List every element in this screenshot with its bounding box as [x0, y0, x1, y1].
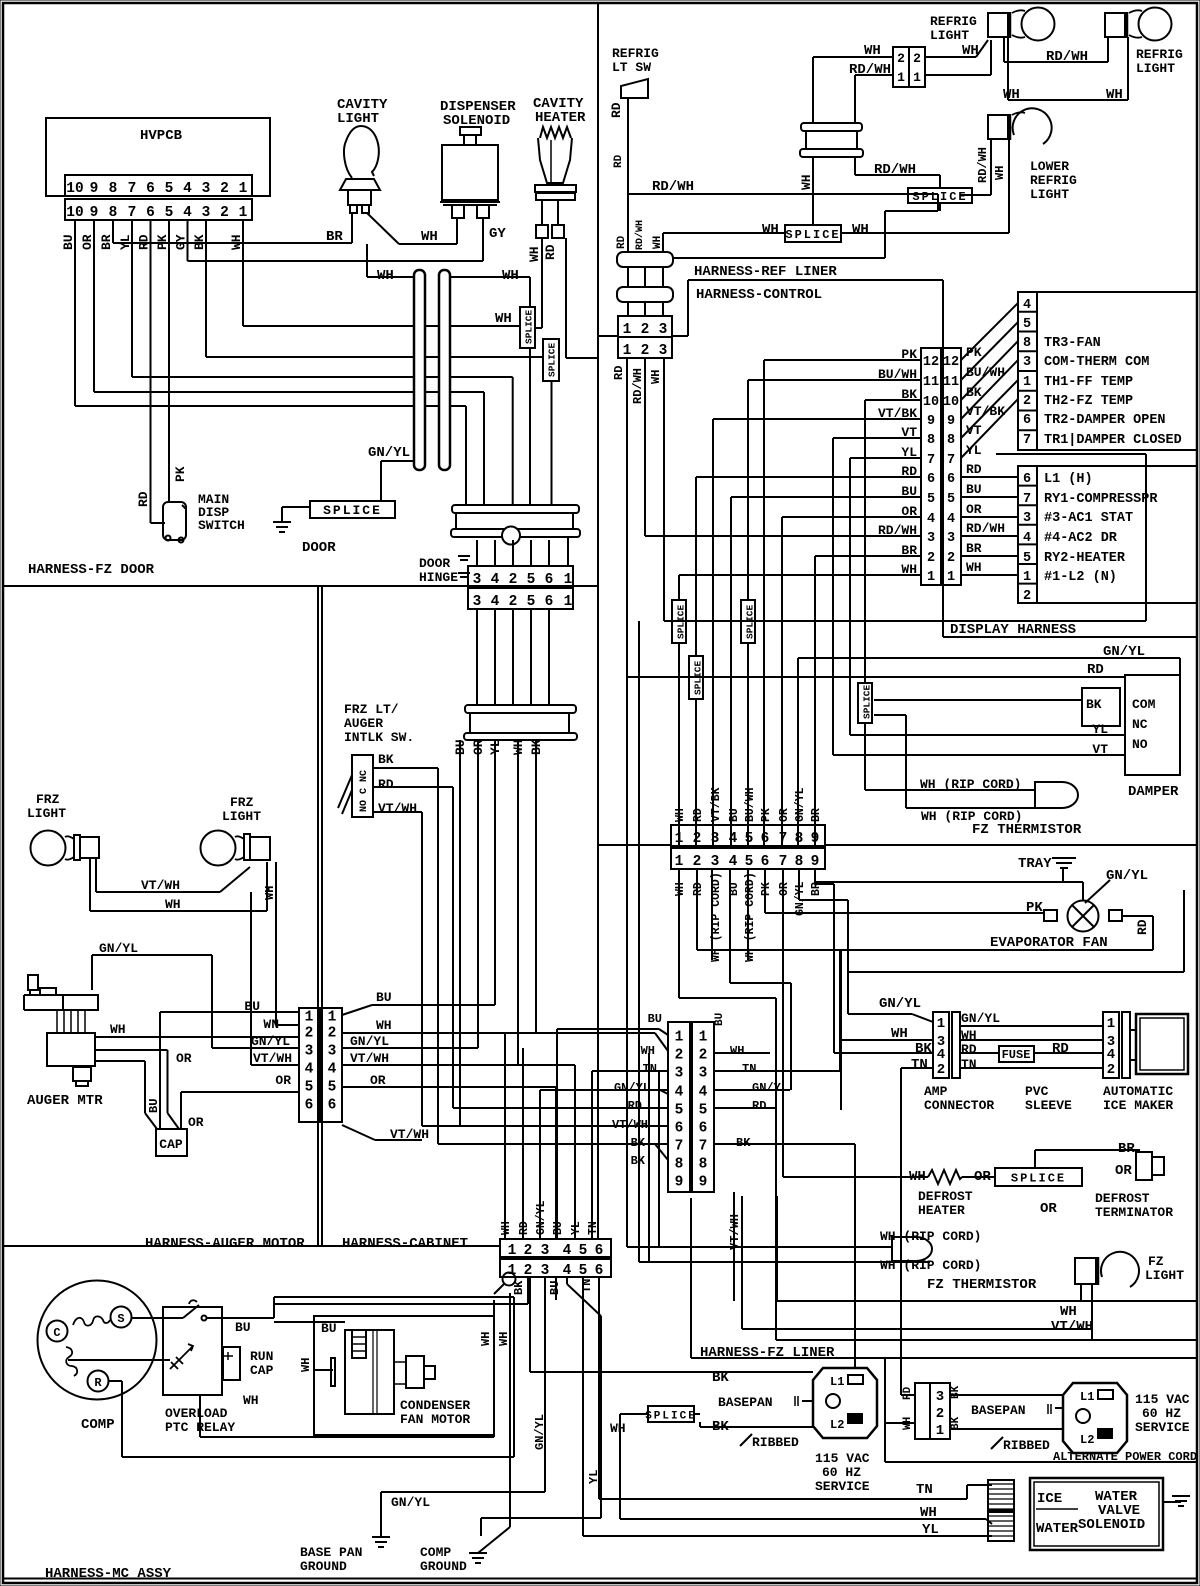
svg-text:LIGHT: LIGHT [1030, 187, 1069, 202]
svg-text:BU: BU [552, 1221, 565, 1235]
svg-text:4: 4 [675, 1085, 684, 1101]
svg-text:8: 8 [1023, 336, 1031, 351]
svg-text:RD: RD [518, 1221, 531, 1235]
svg-text:3: 3 [927, 531, 935, 546]
svg-text:FRZ: FRZ [230, 795, 254, 810]
svg-text:1: 1 [675, 1030, 684, 1046]
svg-text:1: 1 [937, 1016, 945, 1032]
svg-text:NC: NC [1132, 717, 1148, 732]
svg-text:2: 2 [693, 854, 702, 870]
svg-text:FZ: FZ [1148, 1254, 1164, 1269]
svg-text:BASEPAN: BASEPAN [718, 1395, 773, 1410]
svg-text:WH: WH [110, 1022, 126, 1037]
svg-text:3: 3 [473, 594, 482, 610]
svg-text:WH: WH [165, 897, 181, 912]
svg-text:5: 5 [745, 854, 754, 870]
svg-text:WH: WH [500, 1221, 513, 1235]
svg-text:4: 4 [729, 831, 738, 847]
svg-text:GN/YL: GN/YL [752, 1081, 788, 1095]
svg-text:4: 4 [729, 854, 738, 870]
svg-text:7: 7 [128, 181, 137, 197]
svg-text:GN/YL: GN/YL [879, 996, 921, 1012]
svg-text:4: 4 [183, 181, 192, 197]
svg-text:FUSE: FUSE [1002, 1048, 1031, 1062]
svg-text:BR: BR [99, 234, 114, 250]
svg-text:ICE MAKER: ICE MAKER [1103, 1098, 1173, 1113]
svg-text:WH: WH [799, 174, 814, 190]
svg-text:2: 2 [913, 51, 921, 66]
svg-text:GN/YL: GN/YL [614, 1081, 650, 1095]
svg-text:DISPLAY HARNESS: DISPLAY HARNESS [950, 622, 1076, 638]
svg-text:7: 7 [699, 1139, 708, 1155]
svg-text:FZ THERMISTOR: FZ THERMISTOR [927, 1277, 1037, 1293]
svg-text:3: 3 [328, 1044, 337, 1060]
svg-text:PVC: PVC [1025, 1084, 1049, 1099]
svg-text:RD: RD [1087, 662, 1104, 678]
svg-text:BU/WH: BU/WH [966, 365, 1005, 380]
svg-text:TERMINATOR: TERMINATOR [1095, 1205, 1173, 1220]
svg-text:4: 4 [328, 1062, 337, 1078]
svg-text:7: 7 [1023, 433, 1031, 448]
svg-text:COMP: COMP [420, 1545, 451, 1560]
svg-text:60 HZ: 60 HZ [822, 1465, 861, 1480]
svg-text:1: 1 [1023, 375, 1031, 390]
svg-text:4: 4 [183, 205, 192, 221]
svg-text:6: 6 [545, 594, 554, 610]
svg-text:5: 5 [579, 1263, 588, 1279]
svg-text:2: 2 [937, 1062, 945, 1078]
svg-text:S: S [117, 1312, 124, 1326]
svg-text:VT/BK: VT/BK [966, 404, 1005, 419]
svg-text:TN: TN [587, 1221, 600, 1235]
svg-text:3: 3 [541, 1243, 550, 1259]
svg-text:GN/YL: GN/YL [368, 445, 410, 461]
svg-text:WH (RIP CORD): WH (RIP CORD) [744, 872, 757, 962]
svg-text:WN: WN [263, 1017, 279, 1032]
svg-text:VT/WH: VT/WH [1051, 1319, 1093, 1335]
svg-text:BK: BK [512, 1280, 526, 1295]
svg-text:10: 10 [66, 205, 83, 221]
svg-text:RD: RD [752, 1099, 766, 1113]
svg-text:FZ THERMISTOR: FZ THERMISTOR [972, 822, 1082, 838]
svg-text:1: 1 [699, 1030, 708, 1046]
svg-text:6: 6 [927, 472, 935, 487]
svg-text:RD: RD [1052, 1041, 1069, 1057]
svg-text:9: 9 [675, 1175, 684, 1191]
svg-text:L1: L1 [830, 1375, 844, 1389]
svg-text:5: 5 [165, 181, 174, 197]
svg-text:REFRIG: REFRIG [930, 14, 977, 29]
svg-text:9: 9 [811, 831, 820, 847]
svg-text:TR1|DAMPER CLOSED: TR1|DAMPER CLOSED [1044, 433, 1182, 448]
svg-text:FAN MOTOR: FAN MOTOR [400, 1412, 470, 1427]
svg-text:TN: TN [643, 1062, 657, 1076]
svg-text:HARNESS-CONTROL: HARNESS-CONTROL [696, 287, 822, 303]
svg-text:SWITCH: SWITCH [198, 518, 245, 533]
svg-text:7: 7 [779, 854, 788, 870]
svg-text:HARNESS-FZ LINER: HARNESS-FZ LINER [700, 1345, 835, 1361]
svg-text:PK: PK [760, 808, 773, 822]
svg-text:SPLICE: SPLICE [524, 309, 535, 344]
svg-text:OR: OR [778, 882, 791, 896]
svg-text:VT/WH: VT/WH [612, 1118, 648, 1132]
svg-text:HEATER: HEATER [535, 110, 586, 126]
svg-text:RD/WH: RD/WH [631, 368, 645, 404]
svg-text:PK: PK [173, 466, 188, 482]
svg-text:RD: RD [616, 235, 628, 249]
svg-text:6: 6 [545, 572, 554, 588]
svg-text:WH: WH [376, 1018, 392, 1033]
svg-text:WATER: WATER [1036, 1521, 1079, 1537]
svg-text:COM-THERM COM: COM-THERM COM [1044, 355, 1149, 370]
svg-text:COM: COM [1132, 697, 1156, 712]
svg-text:9: 9 [927, 414, 935, 429]
svg-text:2: 2 [675, 1048, 684, 1064]
svg-text:COMP: COMP [81, 1417, 115, 1433]
svg-text:6: 6 [328, 1098, 337, 1114]
svg-text:WH: WH [762, 222, 779, 238]
svg-text:#1-L2 (N): #1-L2 (N) [1044, 570, 1117, 585]
svg-text:BU: BU [147, 1099, 161, 1113]
svg-text:9: 9 [90, 181, 99, 197]
svg-text:BK: BK [966, 385, 982, 400]
svg-text:GN/YL: GN/YL [99, 941, 138, 956]
svg-text:WH: WH [377, 268, 394, 284]
svg-text:OR: OR [275, 1073, 291, 1088]
svg-text:BK: BK [378, 752, 394, 767]
svg-text:RD: RD [966, 462, 982, 477]
svg-text:6: 6 [595, 1243, 604, 1259]
svg-text:OR: OR [80, 234, 95, 250]
svg-text:RD/WH: RD/WH [966, 521, 1005, 536]
svg-text:1: 1 [508, 1243, 517, 1259]
svg-text:5: 5 [527, 594, 536, 610]
svg-text:3: 3 [305, 1044, 314, 1060]
svg-text:8: 8 [109, 181, 118, 197]
svg-text:WH: WH [730, 1044, 744, 1058]
svg-text:8: 8 [795, 831, 804, 847]
svg-text:8: 8 [109, 205, 118, 221]
svg-text:2: 2 [641, 343, 650, 359]
svg-text:7: 7 [927, 453, 935, 468]
svg-text:1: 1 [947, 570, 955, 585]
svg-text:6: 6 [146, 205, 155, 221]
svg-text:L1: L1 [1080, 1390, 1094, 1404]
svg-text:SERVICE: SERVICE [1135, 1420, 1190, 1435]
svg-text:OR: OR [974, 1169, 991, 1185]
svg-text:BK: BK [1086, 697, 1102, 712]
svg-text:SPLICE: SPLICE [912, 190, 967, 204]
svg-text:WH: WH [610, 1421, 626, 1436]
svg-text:VT/WH: VT/WH [141, 878, 180, 893]
svg-text:SPLICE: SPLICE [1011, 1172, 1066, 1186]
svg-text:5: 5 [328, 1080, 337, 1096]
svg-text:DOOR: DOOR [419, 556, 450, 571]
svg-text:3: 3 [947, 531, 955, 546]
svg-text:L2: L2 [1080, 1433, 1094, 1447]
svg-text:1: 1 [328, 1010, 337, 1026]
svg-text:7: 7 [128, 205, 137, 221]
svg-text:11: 11 [943, 375, 959, 390]
svg-text:C: C [53, 1326, 60, 1340]
svg-text:NO: NO [1132, 737, 1148, 752]
svg-text:TR3-FAN: TR3-FAN [1044, 336, 1101, 351]
svg-text:BK: BK [915, 1041, 932, 1057]
svg-text:4: 4 [699, 1085, 708, 1101]
svg-text:4: 4 [1107, 1047, 1115, 1063]
svg-text:RD: RD [609, 102, 624, 118]
svg-text:RD: RD [612, 366, 626, 380]
svg-text:BR: BR [966, 541, 982, 556]
svg-text:GY: GY [489, 226, 506, 242]
svg-text:1: 1 [623, 322, 632, 338]
svg-text:5: 5 [305, 1080, 314, 1096]
svg-text:1: 1 [936, 1423, 944, 1439]
svg-text:WH: WH [1106, 87, 1123, 103]
svg-text:8: 8 [795, 854, 804, 870]
svg-text:11: 11 [923, 375, 939, 390]
svg-text:115 VAC: 115 VAC [1135, 1392, 1190, 1407]
svg-text:WH: WH [502, 268, 519, 284]
svg-text:CAP: CAP [159, 1137, 183, 1152]
svg-text:WH: WH [527, 246, 542, 262]
svg-text:6: 6 [305, 1098, 314, 1114]
svg-text:SPLICE: SPLICE [645, 1411, 697, 1423]
svg-text:GN/YL: GN/YL [794, 787, 807, 822]
svg-text:DEFROST: DEFROST [1095, 1191, 1150, 1206]
svg-text:RIBBED: RIBBED [1003, 1438, 1050, 1453]
svg-text:1: 1 [1107, 1016, 1115, 1032]
svg-text:HEATER: HEATER [918, 1203, 965, 1218]
svg-text:YL: YL [587, 1470, 601, 1484]
svg-text:SPLICE: SPLICE [785, 228, 840, 242]
svg-text:LOWER: LOWER [1030, 159, 1069, 174]
svg-text:4: 4 [491, 594, 500, 610]
svg-text:RD: RD [628, 1099, 642, 1113]
svg-text:5: 5 [745, 831, 754, 847]
svg-text:8: 8 [927, 433, 935, 448]
svg-text:WH: WH [299, 1358, 313, 1372]
svg-text:BK: BK [736, 1136, 751, 1150]
svg-text:BR: BR [326, 229, 343, 245]
svg-text:YL: YL [966, 443, 982, 458]
svg-text:HINGE: HINGE [419, 570, 458, 585]
svg-text:3: 3 [711, 854, 720, 870]
svg-text:SOLENOID: SOLENOID [1078, 1517, 1145, 1533]
svg-text:PK: PK [760, 882, 773, 896]
svg-text:NO C NC: NO C NC [359, 770, 370, 812]
svg-text:RD: RD [613, 154, 625, 168]
svg-text:2: 2 [1023, 589, 1031, 604]
svg-text:WH: WH [993, 166, 1007, 180]
svg-text:7: 7 [779, 831, 788, 847]
svg-text:GN/YL: GN/YL [535, 1200, 548, 1235]
svg-text:SERVICE: SERVICE [815, 1479, 870, 1494]
svg-text:TN: TN [961, 1057, 977, 1072]
svg-text:GN/YL: GN/YL [391, 1495, 430, 1510]
svg-text:HVPCB: HVPCB [140, 128, 183, 144]
svg-text:VT/WH: VT/WH [378, 801, 417, 816]
svg-text:EVAPORATOR FAN: EVAPORATOR FAN [990, 935, 1108, 951]
svg-text:TN: TN [911, 1057, 928, 1073]
svg-text:RY2-HEATER: RY2-HEATER [1044, 551, 1126, 566]
svg-text:WH: WH [497, 1332, 511, 1346]
svg-text:5: 5 [165, 205, 174, 221]
svg-text:6: 6 [761, 831, 770, 847]
svg-text:3: 3 [541, 1263, 550, 1279]
svg-text:BU: BU [728, 808, 741, 822]
svg-text:BASE PAN: BASE PAN [300, 1545, 362, 1560]
svg-text:RD: RD [136, 491, 151, 507]
svg-text:LT SW: LT SW [612, 60, 651, 75]
svg-text:4: 4 [491, 572, 500, 588]
svg-text:3: 3 [659, 322, 668, 338]
svg-text:BU: BU [714, 1013, 726, 1026]
svg-text:L1 (H): L1 (H) [1044, 472, 1093, 487]
svg-text:BK: BK [950, 1385, 962, 1399]
svg-text:OR: OR [966, 502, 982, 517]
svg-text:DEFROST: DEFROST [918, 1189, 973, 1204]
svg-text:DAMPER: DAMPER [1128, 784, 1179, 800]
svg-text:TH2-FZ TEMP: TH2-FZ TEMP [1044, 394, 1133, 409]
svg-text:BK: BK [950, 1416, 962, 1430]
svg-text:RD: RD [1135, 919, 1150, 935]
svg-text:LIGHT: LIGHT [1145, 1268, 1184, 1283]
svg-text:WH: WH [674, 882, 687, 896]
svg-text:3: 3 [699, 1066, 708, 1082]
svg-text:SPLICE: SPLICE [323, 503, 382, 518]
svg-text:10: 10 [66, 181, 83, 197]
svg-text:9: 9 [811, 854, 820, 870]
svg-text:WH: WH [1060, 1304, 1077, 1320]
svg-text:WH: WH [674, 808, 687, 822]
svg-text:ALTERNATE POWER CORD: ALTERNATE POWER CORD [1053, 1450, 1197, 1464]
svg-text:1: 1 [897, 70, 905, 85]
svg-text:BU: BU [548, 1281, 562, 1295]
svg-text:5: 5 [1023, 317, 1031, 332]
svg-text:TRAY: TRAY [1018, 856, 1052, 872]
svg-text:RD/WH: RD/WH [874, 162, 916, 178]
svg-text:BU: BU [376, 990, 392, 1005]
svg-text:2: 2 [927, 551, 935, 566]
svg-text:OR: OR [778, 808, 791, 822]
svg-text:BU: BU [648, 1012, 662, 1026]
svg-text:5: 5 [947, 492, 955, 507]
svg-text:WH: WH [966, 560, 982, 575]
svg-text:BU: BU [966, 482, 982, 497]
svg-text:INTLK SW.: INTLK SW. [344, 730, 414, 745]
svg-text:RD: RD [543, 244, 558, 260]
svg-text:2: 2 [509, 594, 518, 610]
svg-text:SPLICE: SPLICE [547, 342, 558, 377]
svg-text:10: 10 [943, 395, 959, 410]
svg-text:6: 6 [595, 1263, 604, 1279]
svg-text:2: 2 [220, 181, 229, 197]
svg-text:2: 2 [220, 205, 229, 221]
svg-text:5: 5 [699, 1103, 708, 1119]
svg-text:2: 2 [328, 1026, 337, 1042]
svg-text:SPLICE: SPLICE [862, 684, 873, 719]
svg-text:REFRIG: REFRIG [1030, 173, 1077, 188]
svg-text:BU/WH: BU/WH [744, 787, 757, 822]
svg-text:3: 3 [675, 1066, 684, 1082]
svg-text:BU: BU [321, 1321, 337, 1336]
svg-text:5: 5 [675, 1103, 684, 1119]
svg-text:WH: WH [479, 1332, 493, 1346]
svg-text:1: 1 [239, 205, 248, 221]
svg-text:GROUND: GROUND [300, 1559, 347, 1574]
svg-text:WH: WH [852, 222, 869, 238]
svg-text:1: 1 [564, 594, 573, 610]
svg-text:AUTOMATIC: AUTOMATIC [1103, 1084, 1173, 1099]
svg-text:8: 8 [675, 1157, 684, 1173]
svg-text:2: 2 [641, 322, 650, 338]
svg-text:4: 4 [937, 1047, 945, 1063]
svg-text:BU: BU [244, 999, 260, 1014]
svg-text:WH: WH [243, 1393, 259, 1408]
svg-text:RD: RD [378, 777, 394, 792]
svg-text:OR: OR [1040, 1201, 1057, 1217]
svg-text:6: 6 [675, 1121, 684, 1137]
svg-text:1: 1 [913, 70, 921, 85]
svg-text:115 VAC: 115 VAC [815, 1451, 870, 1466]
svg-text:GN/YL: GN/YL [251, 1034, 290, 1049]
svg-text:1: 1 [927, 570, 935, 585]
svg-text:RY1-COMPRESSPR: RY1-COMPRESSPR [1044, 492, 1158, 507]
svg-text:WH: WH [421, 229, 438, 245]
svg-text:6: 6 [761, 854, 770, 870]
svg-text:GN/YL: GN/YL [794, 881, 807, 916]
svg-text:CONNECTOR: CONNECTOR [924, 1098, 994, 1113]
svg-text:1: 1 [305, 1010, 314, 1026]
svg-text:BASEPAN: BASEPAN [971, 1403, 1026, 1418]
svg-text:2: 2 [947, 551, 955, 566]
svg-text:RUN: RUN [250, 1349, 273, 1364]
svg-text:3: 3 [1023, 511, 1031, 526]
svg-text:SLEEVE: SLEEVE [1025, 1098, 1072, 1113]
svg-text:4: 4 [305, 1062, 314, 1078]
svg-text:GROUND: GROUND [420, 1559, 467, 1574]
svg-text:3: 3 [1023, 355, 1031, 370]
svg-text:LIGHT: LIGHT [930, 28, 969, 43]
svg-text:HARNESS-MC ASSY: HARNESS-MC ASSY [45, 1566, 172, 1582]
svg-text:ICE: ICE [1037, 1491, 1062, 1507]
svg-text:HARNESS-CABINET: HARNESS-CABINET [342, 1236, 468, 1252]
svg-text:RD: RD [902, 1386, 914, 1400]
svg-text:2: 2 [524, 1243, 533, 1259]
svg-text:WH: WH [1003, 87, 1020, 103]
svg-text:BU: BU [235, 1320, 251, 1335]
svg-text:9: 9 [699, 1175, 708, 1191]
svg-text:2: 2 [897, 51, 905, 66]
svg-text:2: 2 [509, 572, 518, 588]
svg-text:3: 3 [473, 572, 482, 588]
svg-text:9: 9 [947, 414, 955, 429]
svg-text:10: 10 [923, 395, 939, 410]
svg-text:1: 1 [239, 181, 248, 197]
svg-text:6: 6 [699, 1121, 708, 1137]
svg-text:1: 1 [675, 854, 684, 870]
svg-text:HARNESS-REF LINER: HARNESS-REF LINER [694, 264, 837, 280]
svg-text:2: 2 [1023, 394, 1031, 409]
svg-text:2: 2 [1107, 1062, 1115, 1078]
svg-text:RD: RD [692, 808, 705, 822]
svg-text:REFRIG: REFRIG [1136, 47, 1183, 62]
svg-text:9: 9 [90, 205, 99, 221]
svg-text:WH: WH [495, 311, 512, 327]
svg-text:TN: TN [742, 1062, 756, 1076]
svg-text:3: 3 [202, 181, 211, 197]
